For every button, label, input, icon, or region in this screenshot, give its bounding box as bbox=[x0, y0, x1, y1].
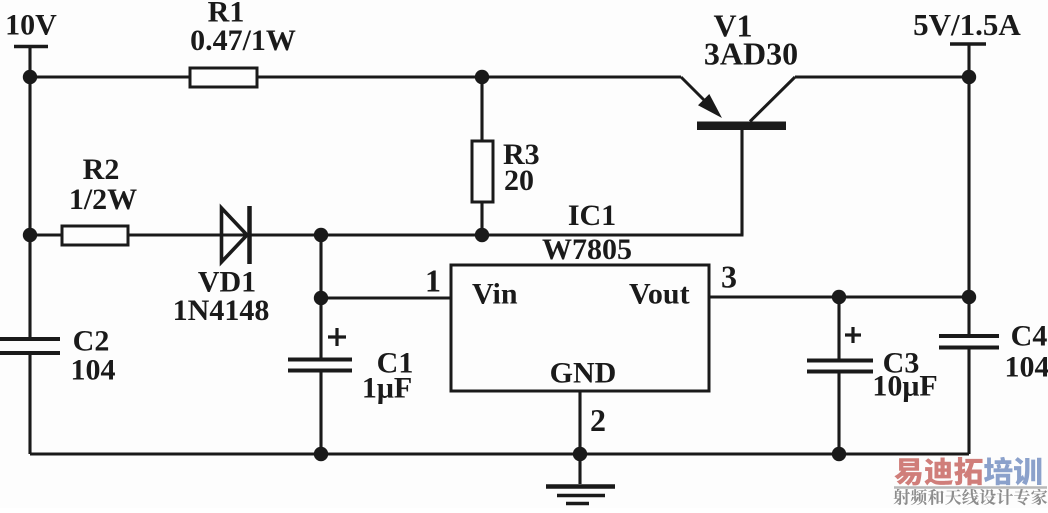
svg-text:104: 104 bbox=[1005, 351, 1048, 384]
svg-text:GND: GND bbox=[550, 357, 617, 390]
svg-text:1N4148: 1N4148 bbox=[173, 294, 270, 327]
junction dot mid rail left bbox=[23, 228, 37, 242]
svg-text:IC1: IC1 bbox=[568, 199, 616, 232]
svg-text:W7805: W7805 bbox=[542, 233, 632, 266]
node 10V input terminal bbox=[14, 47, 48, 78]
capacitor C2 bbox=[0, 339, 60, 353]
wire to IC1 pin 1 bbox=[321, 296, 451, 299]
wire right rail lower bbox=[967, 350, 970, 455]
label R3 20 bbox=[503, 138, 540, 197]
transistor V1 base bar bbox=[697, 122, 786, 131]
svg-text:3: 3 bbox=[721, 259, 737, 295]
svg-text:Vin: Vin bbox=[472, 278, 518, 311]
wire IC1 pin 3 to output rail bbox=[709, 295, 969, 298]
wire input rail to R1 bbox=[30, 75, 190, 78]
svg-text:3AD30: 3AD30 bbox=[704, 36, 798, 72]
junction dot R3 top bbox=[475, 70, 489, 84]
svg-text:0.47/1W: 0.47/1W bbox=[190, 24, 296, 57]
wire R3 bottom lead bbox=[480, 202, 483, 235]
label C2 104 bbox=[71, 325, 116, 387]
wire R2 to VD1 bbox=[128, 233, 321, 236]
label C1 1uF bbox=[362, 347, 414, 405]
svg-text:2: 2 bbox=[590, 402, 606, 438]
svg-text:1μF: 1μF bbox=[362, 372, 412, 405]
wire right rail upper bbox=[967, 77, 970, 334]
wire C3 bottom lead bbox=[837, 373, 840, 454]
transistor V1 collector diagonal bbox=[750, 77, 795, 122]
capacitor C4 bbox=[939, 336, 999, 348]
wire left rail upper bbox=[28, 77, 31, 337]
svg-text:1/2W: 1/2W bbox=[69, 183, 137, 216]
svg-text:R2: R2 bbox=[83, 153, 120, 186]
diode VD1 bbox=[222, 206, 250, 264]
wire C1 top lead bbox=[319, 298, 322, 358]
wire R3 bottom to transistor base bbox=[482, 233, 744, 236]
wire R3 top lead bbox=[480, 77, 483, 141]
node 5V/1.5A output terminal bbox=[950, 44, 986, 77]
junction dot input rail bbox=[23, 70, 37, 84]
svg-text:1: 1 bbox=[425, 263, 441, 299]
capacitor C1 bbox=[288, 360, 352, 371]
wire transistor base lead bbox=[740, 130, 743, 235]
svg-text:10V: 10V bbox=[5, 9, 57, 42]
svg-text:104: 104 bbox=[71, 354, 116, 387]
wire mid rail to R2 bbox=[30, 233, 62, 236]
svg-text:20: 20 bbox=[504, 164, 534, 197]
resistor R1 bbox=[190, 68, 257, 87]
wire R1 to transistor emitter bbox=[257, 75, 681, 78]
wire transistor to output terminal bbox=[795, 75, 969, 78]
label C4 104 bbox=[1005, 320, 1048, 384]
junction dot C3 bottom bbox=[832, 447, 846, 461]
label R2 1/2W bbox=[69, 153, 137, 216]
junction dot output node bbox=[962, 70, 976, 84]
svg-text:5V/1.5A: 5V/1.5A bbox=[913, 7, 1021, 42]
wire left rail lower bbox=[28, 355, 31, 454]
wire IC1 pin 2 GND lead bbox=[578, 391, 581, 484]
wire C1 bottom lead bbox=[319, 372, 322, 454]
label C3 10uF bbox=[872, 347, 937, 403]
junction dot node B bbox=[314, 228, 328, 242]
wire VD1 to node B bbox=[251, 233, 321, 236]
junction dot R3 bottom bbox=[475, 228, 489, 242]
wire bottom rail bbox=[30, 452, 969, 455]
resistor R2 bbox=[62, 226, 128, 245]
wire C3 top lead bbox=[837, 297, 840, 359]
capacitor C3 plus sign bbox=[845, 327, 861, 343]
junction dot C3 top bbox=[832, 290, 846, 304]
label V1 3AD30 bbox=[704, 8, 798, 72]
label VD1 1N4148 bbox=[173, 266, 270, 328]
svg-text:Vout: Vout bbox=[629, 278, 690, 311]
logo watermark EDATOP bbox=[893, 457, 1047, 505]
ground bbox=[546, 487, 615, 504]
svg-text:10μF: 10μF bbox=[872, 370, 937, 403]
wire node B down to C1 node bbox=[319, 235, 322, 298]
junction dot output rail pin3 node bbox=[962, 290, 976, 304]
label R1 0.47/1W bbox=[190, 0, 296, 57]
capacitor C1 plus sign bbox=[328, 328, 346, 346]
wire node B to R3 bottom bbox=[321, 233, 482, 236]
svg-text:C4: C4 bbox=[1011, 320, 1048, 353]
resistor R3 bbox=[472, 141, 493, 202]
transistor V1 emitter diagonal with arrow bbox=[681, 77, 722, 118]
IC IC1 W7805 regulator box bbox=[451, 265, 709, 391]
junction dot ground node bbox=[573, 447, 587, 461]
junction dot C1/Vin node bbox=[314, 291, 328, 305]
junction dot C1 ground node bbox=[314, 447, 328, 461]
capacitor C3 bbox=[807, 361, 873, 372]
